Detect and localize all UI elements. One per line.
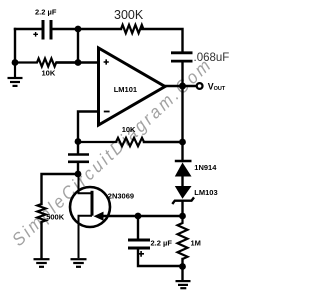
capacitor C2 (unlabeled) [68, 155, 89, 162]
wire 300K right to corner and down right rail [142, 29, 183, 51]
wire zener to gate node [181, 201, 183, 216]
wire between diodes [181, 177, 183, 187]
drain lead [79, 174, 93, 193]
wire + input from node B to op-amp [57, 61, 99, 63]
svg-text:10K: 10K [42, 69, 56, 78]
wire gate line to bottom nodes [101, 215, 183, 217]
wire output to terminal [165, 85, 197, 87]
svg-text:LM101: LM101 [114, 85, 137, 94]
terminal VOUT [197, 83, 203, 89]
transistor Q1 2N3069 [70, 174, 110, 258]
wire cap C4 bottom to ground node [138, 250, 183, 267]
node gate junction [179, 213, 186, 220]
wire 1M bottom lead [181, 259, 183, 267]
resistor 10K input (R1) [15, 59, 78, 67]
node feedback junction [179, 139, 186, 146]
plus sign C1 [33, 32, 38, 37]
plus input sign [104, 59, 109, 64]
ground G3 source [71, 259, 87, 267]
wire ground stem bottom right [181, 267, 183, 280]
channel bar [91, 191, 94, 216]
capacitor C4 2.2uF bottom [128, 240, 150, 248]
ground G2 500K [34, 259, 50, 267]
ground G4 bottom-right [176, 281, 191, 288]
svg-text:1N914: 1N914 [194, 163, 217, 172]
node bottom ground junction [179, 263, 186, 270]
node minus junction [75, 138, 82, 145]
wire vertical node A to node B [77, 29, 79, 63]
diode D1 1N914 [175, 161, 192, 177]
resistor 10K feedback (R3) [78, 138, 144, 146]
node output junction [179, 83, 186, 90]
wire 10K feedback to right rail [144, 141, 183, 143]
wire output node down to 10K node [181, 86, 183, 142]
op-amp U1 LM101 [99, 48, 166, 125]
svg-text:2N3069: 2N3069 [108, 191, 134, 200]
wire cap C4 stem [137, 216, 139, 239]
node A junction [75, 26, 82, 33]
wire - input from op-amp left and down [78, 112, 99, 142]
wire node C2 bottom to node D [77, 142, 79, 154]
svg-text:500K: 500K [46, 213, 65, 222]
capacitor C3 .068uF [171, 53, 193, 61]
node cap C4 junction [135, 213, 142, 220]
svg-text:.068uF: .068uF [194, 52, 230, 64]
capacitor C1 2.2uF top-left [43, 20, 51, 40]
resistor 500K (R4) [37, 204, 45, 222]
wire drain node left to 500K [42, 174, 79, 204]
svg-text:300K: 300K [114, 8, 144, 22]
node B junction [75, 59, 82, 66]
wire 500K bottom to ground [40, 222, 42, 258]
wire C2 to drain node [77, 163, 79, 174]
ground G1 top-left [8, 63, 23, 86]
wire left rail vertical [14, 29, 16, 63]
node ground-left junction [12, 59, 19, 66]
svg-text:2.2 µF: 2.2 µF [35, 8, 57, 17]
gate arrow [94, 212, 104, 221]
wire 10K node down to diode D1 [181, 142, 183, 161]
source lead [79, 216, 93, 258]
svg-text:1M: 1M [191, 239, 201, 248]
svg-text:LM103: LM103 [194, 188, 217, 197]
resistor 300K (R2) [121, 25, 143, 33]
svg-text:2.2 µF: 2.2 µF [151, 239, 173, 248]
svg-text:10K: 10K [122, 125, 136, 134]
node drain junction [75, 171, 82, 178]
zener D2 LM103 [172, 186, 194, 204]
wire top-left horizontal to capacitor C1 [15, 28, 42, 30]
resistor 1M (R5) [178, 216, 188, 259]
plus sign C4 [138, 251, 144, 257]
minus input sign [104, 111, 110, 113]
wire right rail cap to output node [181, 62, 183, 86]
wire from C1 to node A [53, 28, 122, 30]
